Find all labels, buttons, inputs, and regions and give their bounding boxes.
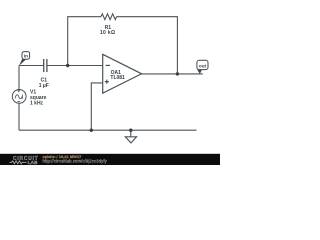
op-amp U1 OA1 (103, 54, 142, 93)
watermark bar (0, 154, 220, 165)
wire input right of capacitor (47, 65, 102, 67)
wire source bottom (18, 103, 20, 130)
capacitor C1 (44, 59, 47, 72)
node flag out (197, 60, 208, 74)
wire bottom rail (19, 129, 197, 131)
svg-text:1 kHz: 1 kHz (30, 101, 44, 107)
label OA1 TL081 (110, 70, 125, 81)
wire source top (18, 66, 20, 90)
svg-text:in: in (24, 54, 28, 59)
node junction dot A (feedback/input) (66, 64, 69, 67)
wire input left of capacitor (19, 65, 43, 67)
label C1 value (39, 78, 49, 89)
wire noninverting stub (91, 83, 102, 130)
wire feedback right leg (176, 16, 178, 74)
svg-text:LAB: LAB (28, 160, 38, 165)
node junction dot C (noninverting/bottom) (90, 129, 93, 132)
wire output (142, 73, 203, 75)
svg-text:10 kΩ: 10 kΩ (100, 30, 116, 36)
node junction dot B (feedback/output) (176, 72, 179, 75)
svg-text:1 µF: 1 µF (39, 83, 49, 89)
op-amp minus pin mark (106, 64, 110, 66)
svg-text:http://circuitlab.com/c/9j2cc3: http://circuitlab.com/c/9j2cc3dyfy (43, 158, 108, 163)
voltage source V1 (12, 89, 26, 103)
wire top left segment (68, 16, 101, 18)
label V1 value (30, 90, 47, 107)
wire top right segment (117, 16, 178, 18)
wire feedback left leg (67, 16, 69, 65)
svg-text:TL081: TL081 (110, 75, 125, 81)
node junction dot D (ground) (129, 129, 132, 132)
op-amp plus pin mark (105, 80, 109, 84)
resistor R1 (101, 14, 116, 20)
node flag in (19, 52, 30, 66)
wire ground stub (130, 130, 132, 137)
svg-text:out: out (199, 63, 207, 68)
label R1 value (100, 25, 116, 36)
ground (125, 137, 136, 143)
logo CircuitLab (10, 156, 39, 166)
